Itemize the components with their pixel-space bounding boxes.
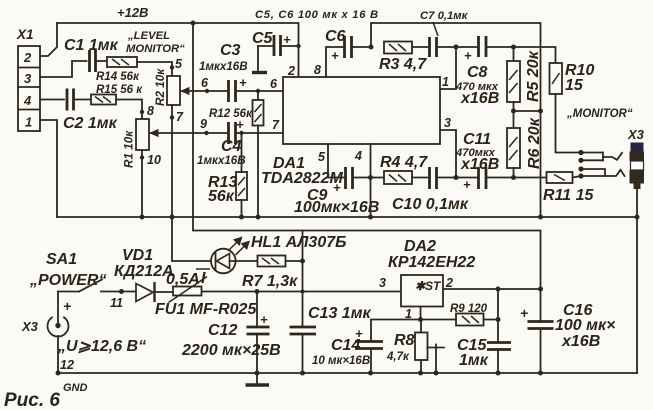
switch SA1: [29, 251, 135, 310]
wire R1 bottom to ground rail: [141, 150, 143, 217]
wire R3 to C7: [412, 46, 430, 48]
svg-text:4,7к: 4,7к: [386, 351, 410, 363]
IC DA2 KP142EH22: [379, 238, 475, 321]
capacitor C5: [252, 30, 301, 70]
wire DA2 pin 2 output row: [443, 288, 541, 290]
svg-text:R14 56к: R14 56к: [96, 71, 140, 83]
connector X3 jack contacts: [578, 150, 624, 179]
svg-text:R3 4,7: R3 4,7: [379, 56, 427, 73]
svg-text:8: 8: [147, 104, 154, 118]
svg-text:R11 15: R11 15: [543, 187, 595, 204]
svg-text:R15 56 к: R15 56 к: [96, 84, 143, 96]
svg-text:С11: С11: [463, 131, 491, 148]
svg-text:✱ST: ✱ST: [415, 279, 442, 293]
svg-text:+: +: [283, 32, 291, 47]
capacitor C14: [312, 326, 383, 373]
svg-text:„MONITOR“: „MONITOR“: [566, 108, 633, 120]
node +12V rail: [57, 5, 299, 77]
svg-text:4: 4: [23, 93, 32, 108]
svg-text:GND: GND: [63, 382, 88, 394]
junction dot R5/R6 midpoint: [511, 109, 516, 114]
svg-text:4: 4: [354, 149, 362, 163]
junction dot raw supply node: [300, 289, 304, 293]
capacitor C4: [197, 117, 246, 167]
svg-text:„POWER“: „POWER“: [29, 272, 106, 289]
svg-text:х16В: х16В: [561, 333, 600, 350]
svg-text:С4: С4: [221, 138, 242, 155]
wire adj row to C14: [371, 320, 421, 342]
diode VD1: [114, 247, 174, 302]
svg-text:х16В: х16В: [460, 90, 499, 107]
svg-text:10: 10: [147, 153, 161, 167]
junction dot pin3/C10/C11: [454, 175, 459, 180]
junction dot on ground link: [538, 109, 543, 114]
connector X3 plug symbol: [627, 127, 645, 189]
wire R10 to jack contact 1: [556, 94, 582, 153]
resistor R8: [386, 320, 444, 376]
resistor R6: [507, 111, 543, 178]
wire to R10: [514, 47, 556, 63]
potentiometer R1: [123, 104, 207, 168]
fuse FU1: [155, 269, 257, 318]
svg-text:R5 20к: R5 20к: [525, 50, 542, 102]
svg-text:КР142ЕН22: КР142ЕН22: [388, 254, 475, 271]
svg-text:X1: X1: [16, 27, 34, 42]
junction dot sleeve/ground rail: [635, 215, 640, 220]
wire C1 to R14: [96, 60, 108, 62]
resistor R7: [242, 256, 303, 291]
svg-text:R4 4,7: R4 4,7: [380, 154, 428, 171]
svg-text:10 мк×16В: 10 мк×16В: [312, 355, 370, 367]
svg-text:1мк: 1мк: [459, 352, 489, 369]
junction dot +12V tap: [191, 21, 196, 26]
wire +12V riser to bottom section: [193, 23, 541, 289]
svg-text:VD1: VD1: [122, 247, 153, 264]
junction dot R7 node: [300, 259, 305, 264]
svg-text:R7 1,3к: R7 1,3к: [242, 273, 298, 290]
wire C4 to DA1 pin 7: [236, 132, 284, 134]
capacitor C16: [520, 289, 615, 373]
svg-text:6: 6: [270, 77, 278, 91]
svg-text:+: +: [236, 117, 244, 132]
junction dot C11/R6/R11: [511, 175, 516, 180]
resistor R3: [379, 42, 427, 74]
svg-text:TDA2822M: TDA2822M: [261, 170, 343, 187]
svg-text:5: 5: [318, 150, 326, 164]
capacitor C10: [392, 167, 469, 213]
resistor R15: [91, 84, 143, 105]
connector X3 power input: [21, 292, 146, 395]
svg-text:R8: R8: [394, 332, 415, 349]
svg-text:8: 8: [314, 63, 321, 77]
svg-text:+: +: [63, 298, 71, 314]
node R1 wiper (9): [200, 117, 209, 135]
resistor R14: [96, 57, 140, 83]
capacitor C13: [290, 305, 372, 373]
resistor R9: [421, 303, 499, 326]
svg-text:MONITOR“: MONITOR“: [126, 43, 185, 55]
svg-text:R12 56к: R12 56к: [209, 108, 253, 120]
wire X1 pin1 to ground rail: [40, 120, 57, 217]
svg-text:С14: С14: [331, 337, 360, 354]
svg-text:С6: С6: [325, 28, 346, 45]
potentiometer R2: [154, 57, 207, 124]
wire X1 pin4 to C2: [40, 99, 64, 101]
wire DA1 pin 5 to C9: [328, 144, 346, 178]
svg-text:DA2: DA2: [404, 238, 436, 255]
svg-text:3: 3: [24, 71, 32, 86]
svg-text:+12В: +12В: [117, 5, 148, 20]
capacitor C11: [455, 131, 514, 192]
junction dot C8/R5: [511, 45, 516, 50]
resistor R11: [514, 172, 595, 204]
svg-text:+: +: [239, 75, 247, 90]
wire R2 bottom to ground rail: [171, 105, 173, 217]
LED HL1: [172, 217, 346, 273]
svg-text:КД212А: КД212А: [114, 263, 174, 280]
wire DA1 pin 1 up: [440, 47, 456, 89]
capacitor C1: [64, 37, 119, 72]
capacitor C7: [420, 10, 469, 57]
svg-text:100 мк×: 100 мк×: [555, 317, 615, 334]
svg-text:2: 2: [23, 50, 32, 65]
capacitor C6 on DA1 pin 8: [325, 28, 371, 77]
junction dot output/C16: [538, 287, 543, 292]
svg-text:1мкх16В: 1мкх16В: [199, 60, 248, 73]
svg-text:1: 1: [442, 75, 449, 89]
svg-text:100мк×16В: 100мк×16В: [294, 199, 379, 216]
svg-text:+: +: [464, 48, 472, 63]
wire R13 to ground rail: [241, 200, 243, 217]
resistor R13: [208, 131, 247, 205]
junction dot adj node: [418, 317, 423, 322]
svg-text:С8: С8: [467, 64, 488, 81]
svg-text:3: 3: [444, 116, 451, 130]
svg-text:R1 10к: R1 10к: [123, 130, 136, 168]
svg-text:2: 2: [445, 276, 453, 290]
svg-text:6: 6: [201, 76, 209, 90]
svg-text:2: 2: [287, 64, 295, 78]
resistor R10: [550, 62, 595, 94]
wire DA2 pin 1 to adj row: [420, 307, 422, 320]
bottom ground rail: [56, 371, 638, 376]
wire DA1 pin 4 down to ground rail: [370, 144, 372, 217]
svg-text:„U⩾12,6 В“: „U⩾12,6 В“: [57, 338, 146, 355]
svg-text:7: 7: [176, 110, 184, 124]
svg-text:0,5А: 0,5А: [166, 271, 200, 288]
svg-text:С12: С12: [208, 322, 237, 339]
capacitor C8: [455, 36, 499, 107]
svg-text:С5, С6 100 мк х 16 В: С5, С6 100 мк х 16 В: [255, 9, 379, 21]
svg-text:7: 7: [272, 118, 280, 132]
svg-text:С2 1мк: С2 1мк: [63, 115, 118, 132]
wire raw supply row to DA2 pin 3: [203, 291, 401, 293]
junction dot R9/C15: [496, 317, 501, 322]
svg-text:15: 15: [565, 77, 584, 94]
capacitor C2: [63, 89, 118, 133]
svg-text:+: +: [331, 48, 339, 63]
svg-text:+: +: [260, 312, 268, 327]
connector X1: [16, 27, 40, 131]
capacitor C12: [181, 289, 281, 373]
wire C3 to DA1 pin 6: [236, 90, 284, 92]
ground symbol below rail: [246, 373, 270, 385]
svg-text:+: +: [463, 177, 471, 192]
resistor R4: [371, 154, 429, 184]
wire X1 pin3 to C1: [40, 61, 87, 77]
wire R12 to ground rail: [257, 126, 259, 218]
wire R15 to R1 top (terminal 8): [116, 100, 142, 120]
svg-text:С10 0,1мк: С10 0,1мк: [392, 196, 469, 213]
svg-text:X3: X3: [21, 319, 39, 334]
resistor R12: [209, 89, 264, 126]
op-amp U1: IC DA1 TDA2822M: [261, 63, 451, 187]
svg-text:R9 120: R9 120: [450, 303, 488, 315]
svg-text:R6 20к: R6 20к: [526, 117, 543, 169]
svg-text:FU1 MF-R025: FU1 MF-R025: [155, 301, 257, 318]
svg-text:SA1: SA1: [46, 251, 77, 268]
svg-text:Рис. 6: Рис. 6: [4, 390, 60, 410]
capacitor C15: [457, 289, 511, 373]
svg-text:3: 3: [379, 276, 386, 290]
svg-text:С1 1мк: С1 1мк: [64, 37, 119, 54]
svg-text:R2 10к: R2 10к: [154, 68, 167, 106]
resistor R5: [507, 47, 542, 111]
wire +12V rail to DA1 pin 2: [57, 23, 299, 77]
svg-text:5: 5: [175, 57, 183, 71]
svg-text:56к: 56к: [208, 188, 235, 205]
ground symbol under C5: [252, 71, 267, 74]
svg-text:С13 1мк: С13 1мк: [308, 305, 372, 322]
ground rail of amplifier: [57, 215, 637, 220]
capacitor C9: [294, 167, 379, 216]
svg-text:11: 11: [110, 296, 123, 310]
node R2 wiper (6): [201, 76, 209, 93]
wire DA1 pin 3 to output row: [440, 130, 456, 178]
svg-text:1: 1: [25, 115, 32, 130]
wire midpoint to ground link: [514, 110, 541, 112]
wire ground link from C6 node to R5R6 mid and ground rail: [371, 23, 541, 217]
wire C8 to R5 node: [486, 46, 514, 48]
junction dot pin4/C9/R4: [368, 175, 373, 180]
svg-text:+: +: [333, 180, 341, 195]
wire C2 to R15: [74, 99, 92, 101]
svg-text:2200 мк×25В: 2200 мк×25В: [181, 342, 281, 359]
svg-text:12: 12: [60, 358, 74, 372]
junction dot pin1 node: [454, 45, 459, 50]
wire riser R7/C13 node: [302, 231, 304, 328]
wire jack sleeve down right edge: [636, 189, 638, 373]
capacitor C3: [199, 42, 248, 102]
svg-text:С5: С5: [252, 30, 274, 47]
svg-text:+: +: [520, 305, 528, 321]
label LEVEL MONITOR: [126, 30, 185, 55]
junction dot C6/R3/ground-link: [369, 45, 374, 50]
svg-text:С3: С3: [220, 42, 241, 59]
svg-text:X3: X3: [627, 127, 645, 142]
svg-text:х16В: х16В: [460, 156, 499, 173]
svg-text:„LEVEL: „LEVEL: [127, 30, 170, 42]
svg-text:I: I: [201, 270, 206, 287]
svg-text:HL1 АЛ307Б: HL1 АЛ307Б: [251, 234, 346, 251]
svg-text:С7 0,1мк: С7 0,1мк: [420, 10, 469, 22]
wire X1 pin2 to +12V rail: [40, 23, 57, 56]
wire C7 to pin1 node: [437, 46, 457, 48]
svg-text:9: 9: [200, 117, 207, 131]
svg-text:1мкх16В: 1мкх16В: [197, 154, 246, 167]
wire R14 to R2 top (terminal 5): [137, 62, 172, 76]
junction dot output/R9 riser: [496, 287, 501, 292]
